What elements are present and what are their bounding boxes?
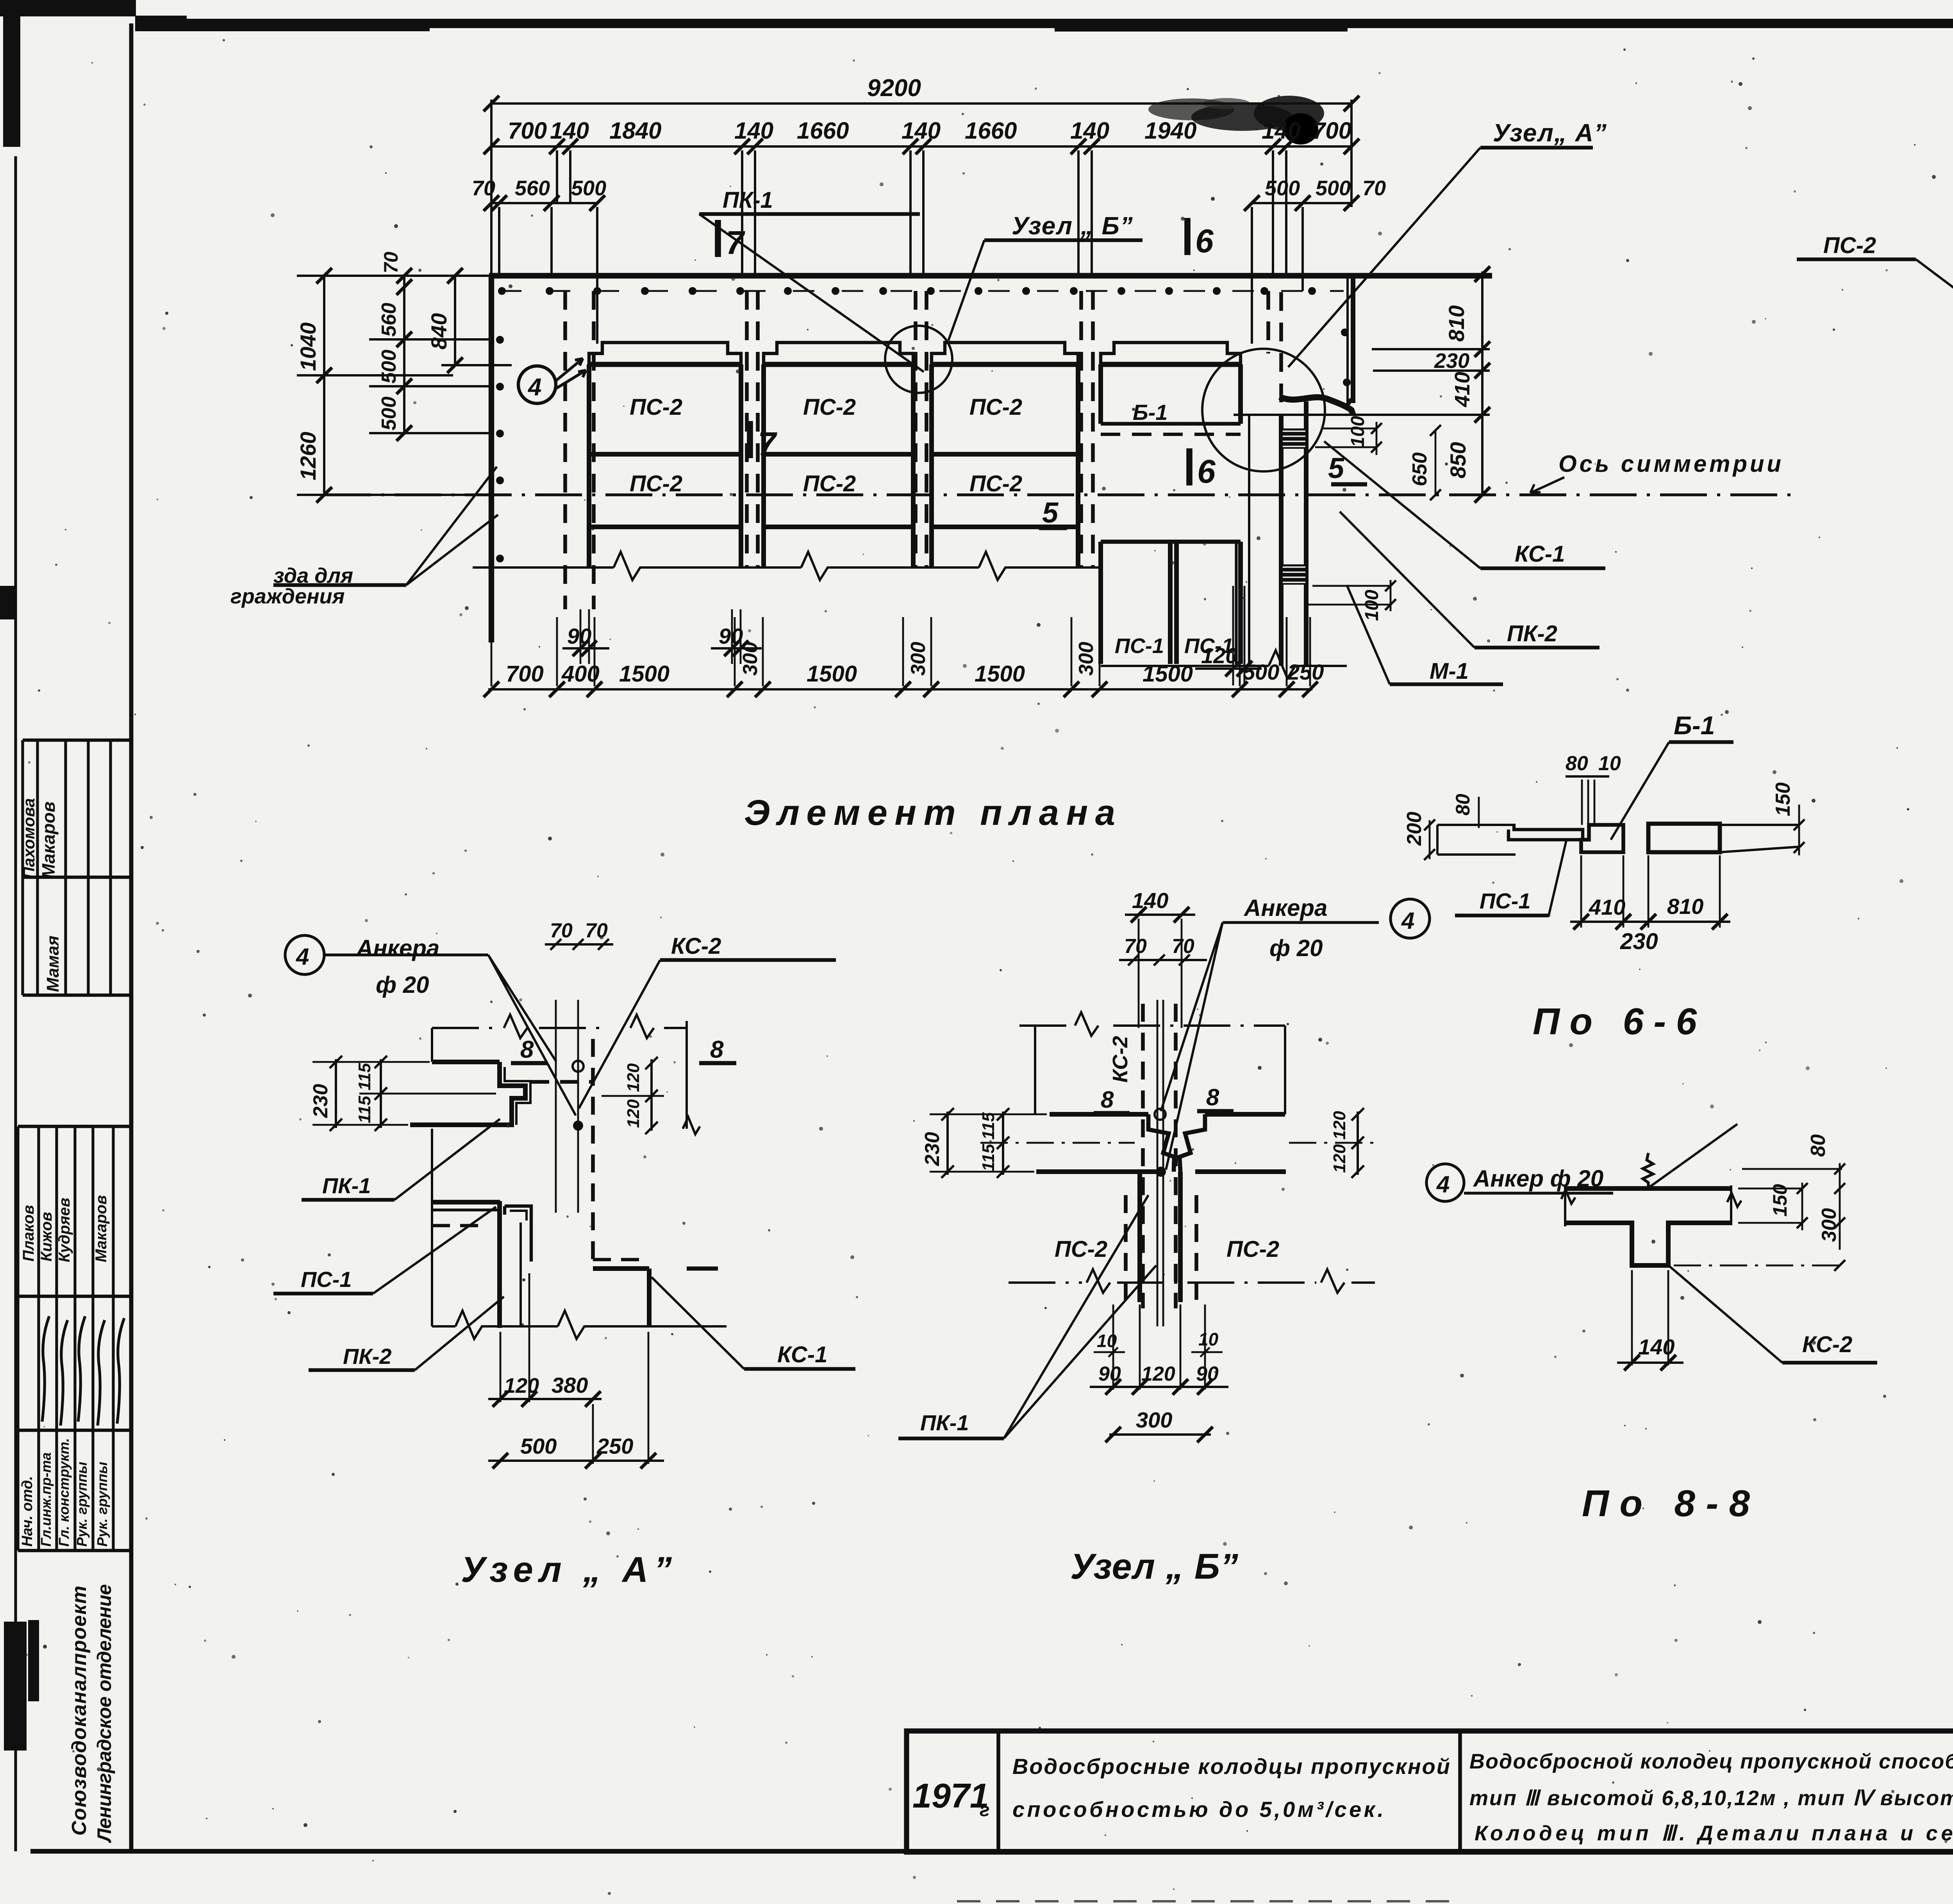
По6-6 left wall block	[1437, 824, 1516, 826]
dim row3 left	[491, 202, 597, 204]
section mark 6 top	[1184, 218, 1191, 255]
svg-text:1660: 1660	[797, 118, 849, 144]
stamp box upper	[23, 739, 131, 742]
svg-text:Кудряев: Кудряев	[56, 1198, 73, 1262]
svg-text:500: 500	[378, 396, 400, 430]
УзелБ lower panels	[1137, 1172, 1142, 1302]
svg-text:120: 120	[624, 1099, 643, 1128]
svg-text:ПС-2: ПС-2	[969, 394, 1022, 420]
УзелА ПК-1 corner bracket	[500, 1062, 525, 1125]
axis line plan	[324, 493, 1797, 496]
dim col 840	[454, 276, 456, 365]
section mark 7 mid	[747, 421, 753, 458]
svg-text:ПК-2: ПК-2	[343, 1344, 392, 1369]
plan wall inner corner right	[1346, 278, 1349, 402]
УзелА dашed interior	[531, 1080, 594, 1084]
svg-text:ПС-2: ПС-2	[1823, 233, 1876, 258]
svg-text:200: 200	[1403, 812, 1426, 846]
svg-text:ПК-1: ПК-1	[723, 187, 773, 213]
svg-text:Союзводоканалпроект: Союзводоканалпроект	[68, 1586, 91, 1836]
svg-text:410: 410	[1589, 895, 1625, 919]
row divider lines	[589, 452, 741, 457]
stamp box lower	[18, 1125, 131, 1128]
УзелА wall bottom edge	[410, 1122, 500, 1127]
svg-text:ПС-2: ПС-2	[630, 394, 682, 420]
svg-text:7: 7	[758, 425, 777, 462]
svg-text:Б-1: Б-1	[1674, 711, 1715, 740]
svg-text:120: 120	[1201, 643, 1237, 668]
svg-text:Макаров: Макаров	[93, 1195, 110, 1262]
svg-text:способностью до 5,0м³/сек.: способностью до 5,0м³/сек.	[1012, 1797, 1384, 1822]
М-1 hatch block 1	[1282, 428, 1306, 449]
svg-text:300: 300	[1075, 642, 1098, 676]
dim right stack 810-230-410-850	[1481, 271, 1483, 495]
plan wall cut wave	[1280, 397, 1353, 415]
black mark left edge	[0, 586, 15, 619]
left frame line	[14, 156, 17, 1851]
svg-text:140: 140	[1638, 1335, 1675, 1359]
По6-6 right slab thin	[1720, 824, 1799, 826]
svg-text:Макаров: Макаров	[38, 801, 59, 879]
ПС-1 bottom break	[1101, 665, 1269, 667]
bottom edge marks	[957, 1900, 1465, 1902]
scan corner mark top-left	[0, 0, 136, 16]
svg-text:ПС-2: ПС-2	[803, 471, 856, 496]
svg-text:1500: 1500	[807, 661, 857, 687]
panel top lines	[587, 362, 743, 367]
svg-text:ПС-1: ПС-1	[1480, 889, 1531, 913]
УзелБ dims 120 120	[1357, 1112, 1359, 1175]
svg-text:700: 700	[506, 661, 544, 687]
svg-text:140: 140	[902, 118, 941, 144]
svg-text:ПК-2: ПК-2	[1507, 621, 1557, 646]
svg-text:ПС-2: ПС-2	[1055, 1237, 1107, 1262]
УзелА top boundary	[432, 1027, 500, 1029]
УзелА ПС-1 hook	[497, 1201, 502, 1328]
svg-text:ф 20: ф 20	[1269, 935, 1323, 961]
dim 100 top	[1323, 428, 1376, 430]
plan bottom break line	[473, 566, 614, 569]
svg-text:140: 140	[1070, 118, 1109, 144]
dim 9200	[491, 102, 1351, 105]
svg-text:140: 140	[550, 118, 589, 144]
svg-text:КС-2: КС-2	[671, 933, 721, 959]
title block dividers	[996, 1731, 1000, 1852]
svg-text:70: 70	[1172, 935, 1194, 958]
svg-text:230: 230	[921, 1132, 944, 1166]
svg-text:560: 560	[378, 303, 400, 337]
svg-text:80: 80	[1566, 752, 1588, 775]
svg-text:ПК-1: ПК-1	[322, 1173, 371, 1198]
dim col 70 560 500 500	[403, 276, 405, 433]
dim 100 bottom	[1312, 585, 1391, 587]
По8-8 break marks	[1564, 1185, 1566, 1226]
svg-text:ПК-1: ПК-1	[920, 1410, 969, 1435]
svg-text:ПС-1: ПС-1	[1115, 634, 1164, 658]
По8-8 Анкер callout	[1426, 1164, 1464, 1201]
УзелА dims 120 120	[650, 1059, 653, 1131]
svg-text:230: 230	[1620, 929, 1658, 954]
По6-6 ПС-1 plate	[1508, 825, 1583, 840]
svg-text:80: 80	[1452, 794, 1474, 815]
svg-text:80: 80	[1807, 1134, 1830, 1157]
УзелА anchor lines	[555, 1000, 557, 1213]
svg-text:700: 700	[508, 118, 547, 144]
stamp column main line	[129, 23, 134, 1851]
svg-text:70: 70	[1124, 935, 1147, 958]
svg-text:1500: 1500	[619, 661, 669, 687]
black bars bottom left	[4, 1622, 27, 1751]
svg-text:КС-2: КС-2	[1109, 1036, 1132, 1083]
svg-text:ПС-2: ПС-2	[803, 394, 856, 420]
УзелА wall top edge	[432, 1060, 500, 1064]
УзелБ dim 230	[946, 1112, 949, 1175]
dim 650	[1435, 430, 1437, 495]
dim row3 right	[1252, 202, 1351, 204]
svg-text:90: 90	[567, 624, 591, 648]
svg-text:150: 150	[1772, 782, 1794, 816]
svg-text:115: 115	[979, 1112, 998, 1140]
svg-text:100: 100	[1348, 416, 1368, 447]
svg-text:70: 70	[550, 919, 573, 942]
svg-text:КС-2: КС-2	[1802, 1332, 1852, 1357]
svg-text:4: 4	[296, 944, 309, 970]
svg-text:70: 70	[472, 177, 495, 200]
svg-text:Ленинградское отделение: Ленинградское отделение	[93, 1584, 115, 1843]
svg-text:100: 100	[1362, 590, 1382, 621]
svg-text:250: 250	[596, 1434, 633, 1458]
plan dots row	[500, 290, 1344, 292]
svg-text:Анкера: Анкера	[1243, 895, 1327, 921]
svg-text:1840: 1840	[609, 118, 661, 144]
svg-text:300: 300	[1136, 1408, 1172, 1432]
svg-text:70: 70	[585, 919, 608, 942]
dashed rib lines	[563, 291, 567, 609]
svg-text:Б-1: Б-1	[1133, 400, 1168, 425]
stamp signatures row	[42, 1316, 49, 1422]
svg-text:560: 560	[515, 177, 550, 200]
svg-text:70: 70	[380, 252, 402, 273]
svg-text:4: 4	[1401, 908, 1414, 934]
svg-text:Анкер ф 20: Анкер ф 20	[1473, 1165, 1603, 1192]
svg-text:тип Ⅲ высотой 6,8,10,12м , тип: тип Ⅲ высотой 6,8,10,12м , тип Ⅳ высотой…	[1469, 1786, 1953, 1810]
svg-text:810: 810	[1444, 305, 1469, 342]
svg-text:140: 140	[1132, 888, 1168, 913]
svg-text:Узел„ А”: Узел„ А”	[1493, 119, 1607, 147]
svg-text:6: 6	[1195, 223, 1214, 259]
svg-text:230: 230	[309, 1084, 332, 1118]
plan bottom dim line	[488, 688, 1312, 691]
svg-text:1500: 1500	[975, 661, 1025, 687]
svg-text:140: 140	[734, 118, 773, 144]
svg-text:ф 20: ф 20	[376, 972, 429, 998]
svg-text:230: 230	[1434, 349, 1469, 373]
УзелА bottom break	[432, 1325, 455, 1328]
КС-1 column lines	[1235, 542, 1237, 664]
УзелБ wall bottom edges	[1036, 1169, 1159, 1174]
svg-text:500: 500	[571, 177, 606, 200]
plan left wall	[489, 276, 494, 642]
УзелА dims 115 115	[380, 1059, 382, 1128]
svg-text:9200: 9200	[867, 75, 921, 102]
smudge over dim line	[1148, 98, 1234, 120]
svg-text:1500: 1500	[1143, 661, 1193, 687]
svg-text:500: 500	[1316, 177, 1351, 200]
section mark 7 top	[715, 220, 721, 257]
По8-8 anchor squiggle	[1643, 1153, 1653, 1188]
second row bottom lines	[589, 525, 741, 529]
svg-text:Мамая: Мамая	[43, 935, 62, 992]
svg-text:КС-1: КС-1	[1515, 541, 1565, 567]
svg-text:700: 700	[1312, 118, 1351, 144]
svg-text:8: 8	[520, 1036, 534, 1063]
Б-1 cell bottom	[1101, 422, 1241, 426]
svg-text:Рук. группы: Рук. группы	[94, 1461, 110, 1547]
УзелБ wall top edges	[1050, 1112, 1148, 1117]
svg-text:Водосбросной колодец пропускно: Водосбросной колодец пропускной способно…	[1469, 1750, 1953, 1773]
svg-text:115: 115	[979, 1144, 998, 1171]
svg-text:8: 8	[1206, 1084, 1219, 1110]
УзелА lower slab	[432, 1200, 500, 1204]
svg-text:140: 140	[1262, 118, 1301, 144]
svg-text:Гл.инж.пр-та: Гл.инж.пр-та	[38, 1453, 54, 1547]
svg-text:90: 90	[1196, 1363, 1219, 1385]
По6-6 Б-1 block	[1581, 825, 1623, 852]
svg-text:Узел „ Б”: Узел „ Б”	[1012, 212, 1134, 240]
svg-text:300: 300	[907, 642, 930, 676]
svg-text:70: 70	[1362, 177, 1386, 200]
svg-text:120: 120	[1330, 1111, 1349, 1140]
svg-text:М-1: М-1	[1430, 658, 1469, 684]
dim row2	[491, 145, 1351, 148]
svg-text:ПС-2: ПС-2	[1226, 1237, 1279, 1262]
svg-text:Пахомова: Пахомова	[20, 798, 38, 879]
svg-text:500: 500	[520, 1434, 557, 1458]
svg-text:Анкера: Анкера	[355, 935, 439, 961]
ПС-1 row	[1101, 540, 1241, 544]
svg-text:115: 115	[355, 1063, 374, 1090]
plan dots right corner col	[1341, 328, 1349, 336]
svg-text:граждения: граждения	[230, 585, 345, 608]
plan dots left col	[496, 336, 504, 344]
svg-text:850: 850	[1446, 442, 1470, 478]
svg-text:Гл. конструкт.: Гл. конструкт.	[56, 1438, 72, 1547]
svg-text:1660: 1660	[965, 118, 1017, 144]
svg-text:1260: 1260	[296, 432, 320, 480]
svg-text:1040: 1040	[296, 322, 320, 371]
title block border	[907, 1731, 1953, 1852]
svg-text:120: 120	[1330, 1144, 1349, 1173]
svg-text:1940: 1940	[1144, 118, 1196, 144]
УзелА dim 230	[335, 1059, 337, 1128]
svg-text:ПС-2: ПС-2	[969, 471, 1022, 496]
svg-text:Рук. группы: Рук. группы	[74, 1461, 90, 1547]
УзелБ anchor verticals	[1157, 1000, 1159, 1326]
callout 4 circle plan	[518, 366, 556, 403]
svg-text:1971: 1971	[912, 1776, 989, 1815]
svg-text:410: 410	[1451, 372, 1474, 407]
circle Узел Б	[885, 326, 952, 393]
svg-text:ПС-1: ПС-1	[301, 1267, 352, 1292]
svg-text:4: 4	[527, 374, 541, 401]
svg-text:6: 6	[1197, 453, 1216, 490]
По8-8 slab bottom and stem	[1565, 1223, 1732, 1265]
svg-text:300: 300	[739, 642, 762, 676]
УзелБ bottom boundary	[1009, 1281, 1082, 1284]
УзелА right Т-shape	[593, 1258, 648, 1261]
svg-text:Узел „ Б”: Узел „ Б”	[1070, 1547, 1238, 1586]
svg-text:500: 500	[1243, 660, 1279, 684]
svg-text:Плаков: Плаков	[20, 1205, 37, 1262]
svg-text:Водосбросные колодцы пропускно: Водосбросные колодцы пропускной	[1012, 1754, 1450, 1779]
panel vertical edges	[587, 364, 591, 567]
svg-text:10: 10	[1598, 752, 1621, 775]
svg-text:10: 10	[1198, 1329, 1219, 1349]
svg-text:КС-1: КС-1	[777, 1342, 827, 1367]
svg-text:8: 8	[710, 1036, 724, 1063]
svg-text:Кижов: Кижов	[38, 1212, 55, 1262]
По6-6 right block	[1648, 824, 1720, 852]
svg-text:500: 500	[1265, 177, 1300, 200]
top frame line	[135, 19, 1953, 28]
svg-text:ПС-2: ПС-2	[630, 471, 682, 496]
dim col 1040 1260	[323, 276, 325, 495]
bottom frame line	[30, 1849, 1953, 1854]
svg-text:4: 4	[1436, 1171, 1450, 1197]
svg-text:г: г	[980, 1800, 990, 1820]
svg-text:115: 115	[355, 1096, 374, 1123]
svg-text:8: 8	[1101, 1087, 1114, 1113]
УзелА callout 4	[285, 935, 324, 974]
По6-6 dims 410 810 230	[1580, 855, 1582, 928]
svg-text:500: 500	[378, 350, 400, 384]
circle Узел А	[1202, 349, 1325, 471]
svg-text:650: 650	[1409, 452, 1431, 486]
panel caps	[589, 343, 741, 364]
УзелБ top boundary	[1019, 1024, 1070, 1027]
svg-text:810: 810	[1667, 894, 1703, 919]
УзелБ dims 115 115	[1002, 1112, 1004, 1175]
section mark 6 mid	[1186, 448, 1193, 485]
plan top wall	[489, 273, 1492, 278]
svg-text:Нач. отд.: Нач. отд.	[19, 1476, 36, 1547]
М-1 hatch block 2	[1282, 564, 1306, 585]
svg-text:840: 840	[427, 313, 451, 350]
speckles	[1731, 80, 1733, 83]
svg-text:380: 380	[552, 1373, 588, 1397]
svg-text:250: 250	[1287, 660, 1324, 684]
svg-text:5: 5	[1042, 496, 1059, 529]
По8-8 slab top	[1565, 1186, 1731, 1191]
svg-text:120: 120	[624, 1063, 643, 1092]
